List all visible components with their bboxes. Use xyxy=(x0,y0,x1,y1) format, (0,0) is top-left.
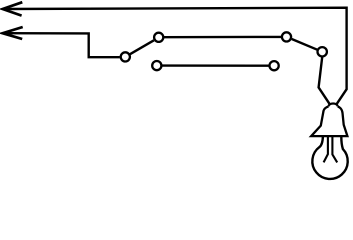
lamp E1 glass bulb xyxy=(312,137,347,179)
switch S1 blade xyxy=(130,40,154,54)
switch S1 lower contact terminal xyxy=(152,61,161,70)
wire L supply line top xyxy=(3,8,347,105)
arrowhead N xyxy=(3,27,23,39)
switch S1 pole terminal xyxy=(121,52,130,61)
wire traveller lower xyxy=(162,64,269,66)
switch S2 lower contact terminal xyxy=(270,61,279,70)
lamp E1 cap dome xyxy=(329,103,338,106)
switch S2 upper contact terminal xyxy=(282,32,291,41)
switch S1 upper contact terminal xyxy=(154,33,163,42)
lamp E1 filament left lead xyxy=(324,137,328,163)
wire S2 pole to lamp xyxy=(319,57,330,104)
lamp E1 bell holder xyxy=(311,107,347,137)
lamp E1 filament right lead xyxy=(332,137,337,163)
wire traveller upper xyxy=(164,36,281,39)
switch S2 pole terminal xyxy=(318,47,327,56)
arrowhead L xyxy=(3,2,23,15)
wire N supply line second xyxy=(3,33,120,57)
switch S2 blade xyxy=(292,39,318,50)
